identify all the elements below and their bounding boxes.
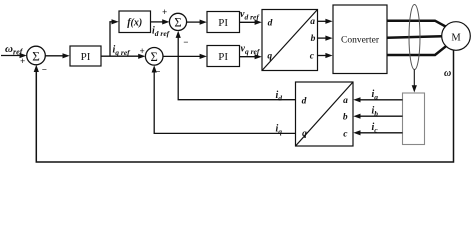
PI controller PI3 [207, 46, 240, 67]
svg-text:PI: PI [218, 17, 228, 29]
wire i_b sensor to abc block [359, 115, 403, 117]
wire branch up to f(x) [110, 22, 113, 56]
svg-text:d: d [302, 97, 307, 107]
summing junction S2 [145, 48, 163, 66]
PI controller PI2 [207, 12, 240, 33]
svg-text:M: M [451, 33, 461, 44]
wire i_q feedback to S2 [154, 70, 295, 134]
svg-text:PI: PI [218, 51, 228, 63]
svg-text:d: d [268, 19, 273, 29]
wire PI2 to dq block (v_d ref) [240, 21, 257, 23]
function block f(x) [119, 11, 151, 33]
svg-text:Σ: Σ [174, 16, 181, 30]
wire w_ref input arrow [1, 55, 21, 57]
wire phase a to converter [318, 20, 328, 22]
svg-text:PI: PI [81, 51, 91, 63]
svg-text:q: q [302, 129, 307, 139]
wire phase b to converter [318, 37, 328, 39]
summing junction S1 [27, 46, 46, 65]
current sensor block [403, 93, 425, 145]
svg-text:−: − [183, 37, 188, 47]
wire i_d feedback to S3 [178, 35, 295, 100]
svg-text:f(x): f(x) [127, 18, 142, 29]
svg-text:q: q [267, 52, 272, 62]
wire PI3 to dq block (v_q ref) [240, 56, 257, 58]
motor M [442, 22, 471, 51]
svg-text:a: a [310, 17, 315, 27]
wire converter to motor phase c (thick) [387, 46, 447, 55]
summing junction S3 [169, 13, 186, 30]
wire phase c to converter [318, 55, 328, 57]
svg-text:a: a [343, 96, 348, 106]
wire converter to motor phase b (thick) [387, 36, 442, 38]
wire S1 to PI1 [45, 55, 64, 57]
wire i_a sensor to abc block [359, 99, 403, 101]
wire ellipse to current sensor [413, 70, 415, 88]
wire f(x) to S3 [151, 21, 165, 23]
current measurement ellipse [409, 5, 420, 70]
wire S3 to PI2 [187, 21, 202, 23]
svg-text:+: + [162, 7, 167, 17]
svg-text:+: + [20, 56, 25, 66]
svg-text:b: b [343, 113, 348, 123]
svg-text:ω: ω [444, 68, 451, 79]
svg-text:+: + [140, 46, 145, 56]
svg-text:−: − [42, 65, 47, 75]
abc-to-dq transform block U2 [296, 82, 354, 146]
svg-text:Converter: Converter [341, 36, 380, 46]
wire converter to motor phase a (thick) [387, 21, 447, 27]
svg-text:b: b [311, 34, 316, 44]
svg-text:Σ: Σ [151, 50, 158, 64]
PI controller PI1 [70, 46, 101, 66]
wire speed feedback from motor to S1 [36, 50, 453, 162]
wire S2 to PI3 [163, 55, 202, 57]
svg-text:Σ: Σ [32, 48, 40, 63]
converter block [333, 5, 387, 74]
dq-to-abc transform block U1 [262, 10, 318, 71]
wire i_c sensor to abc block [359, 132, 403, 134]
wire PI1 to S2 (i_q ref) [101, 55, 140, 57]
